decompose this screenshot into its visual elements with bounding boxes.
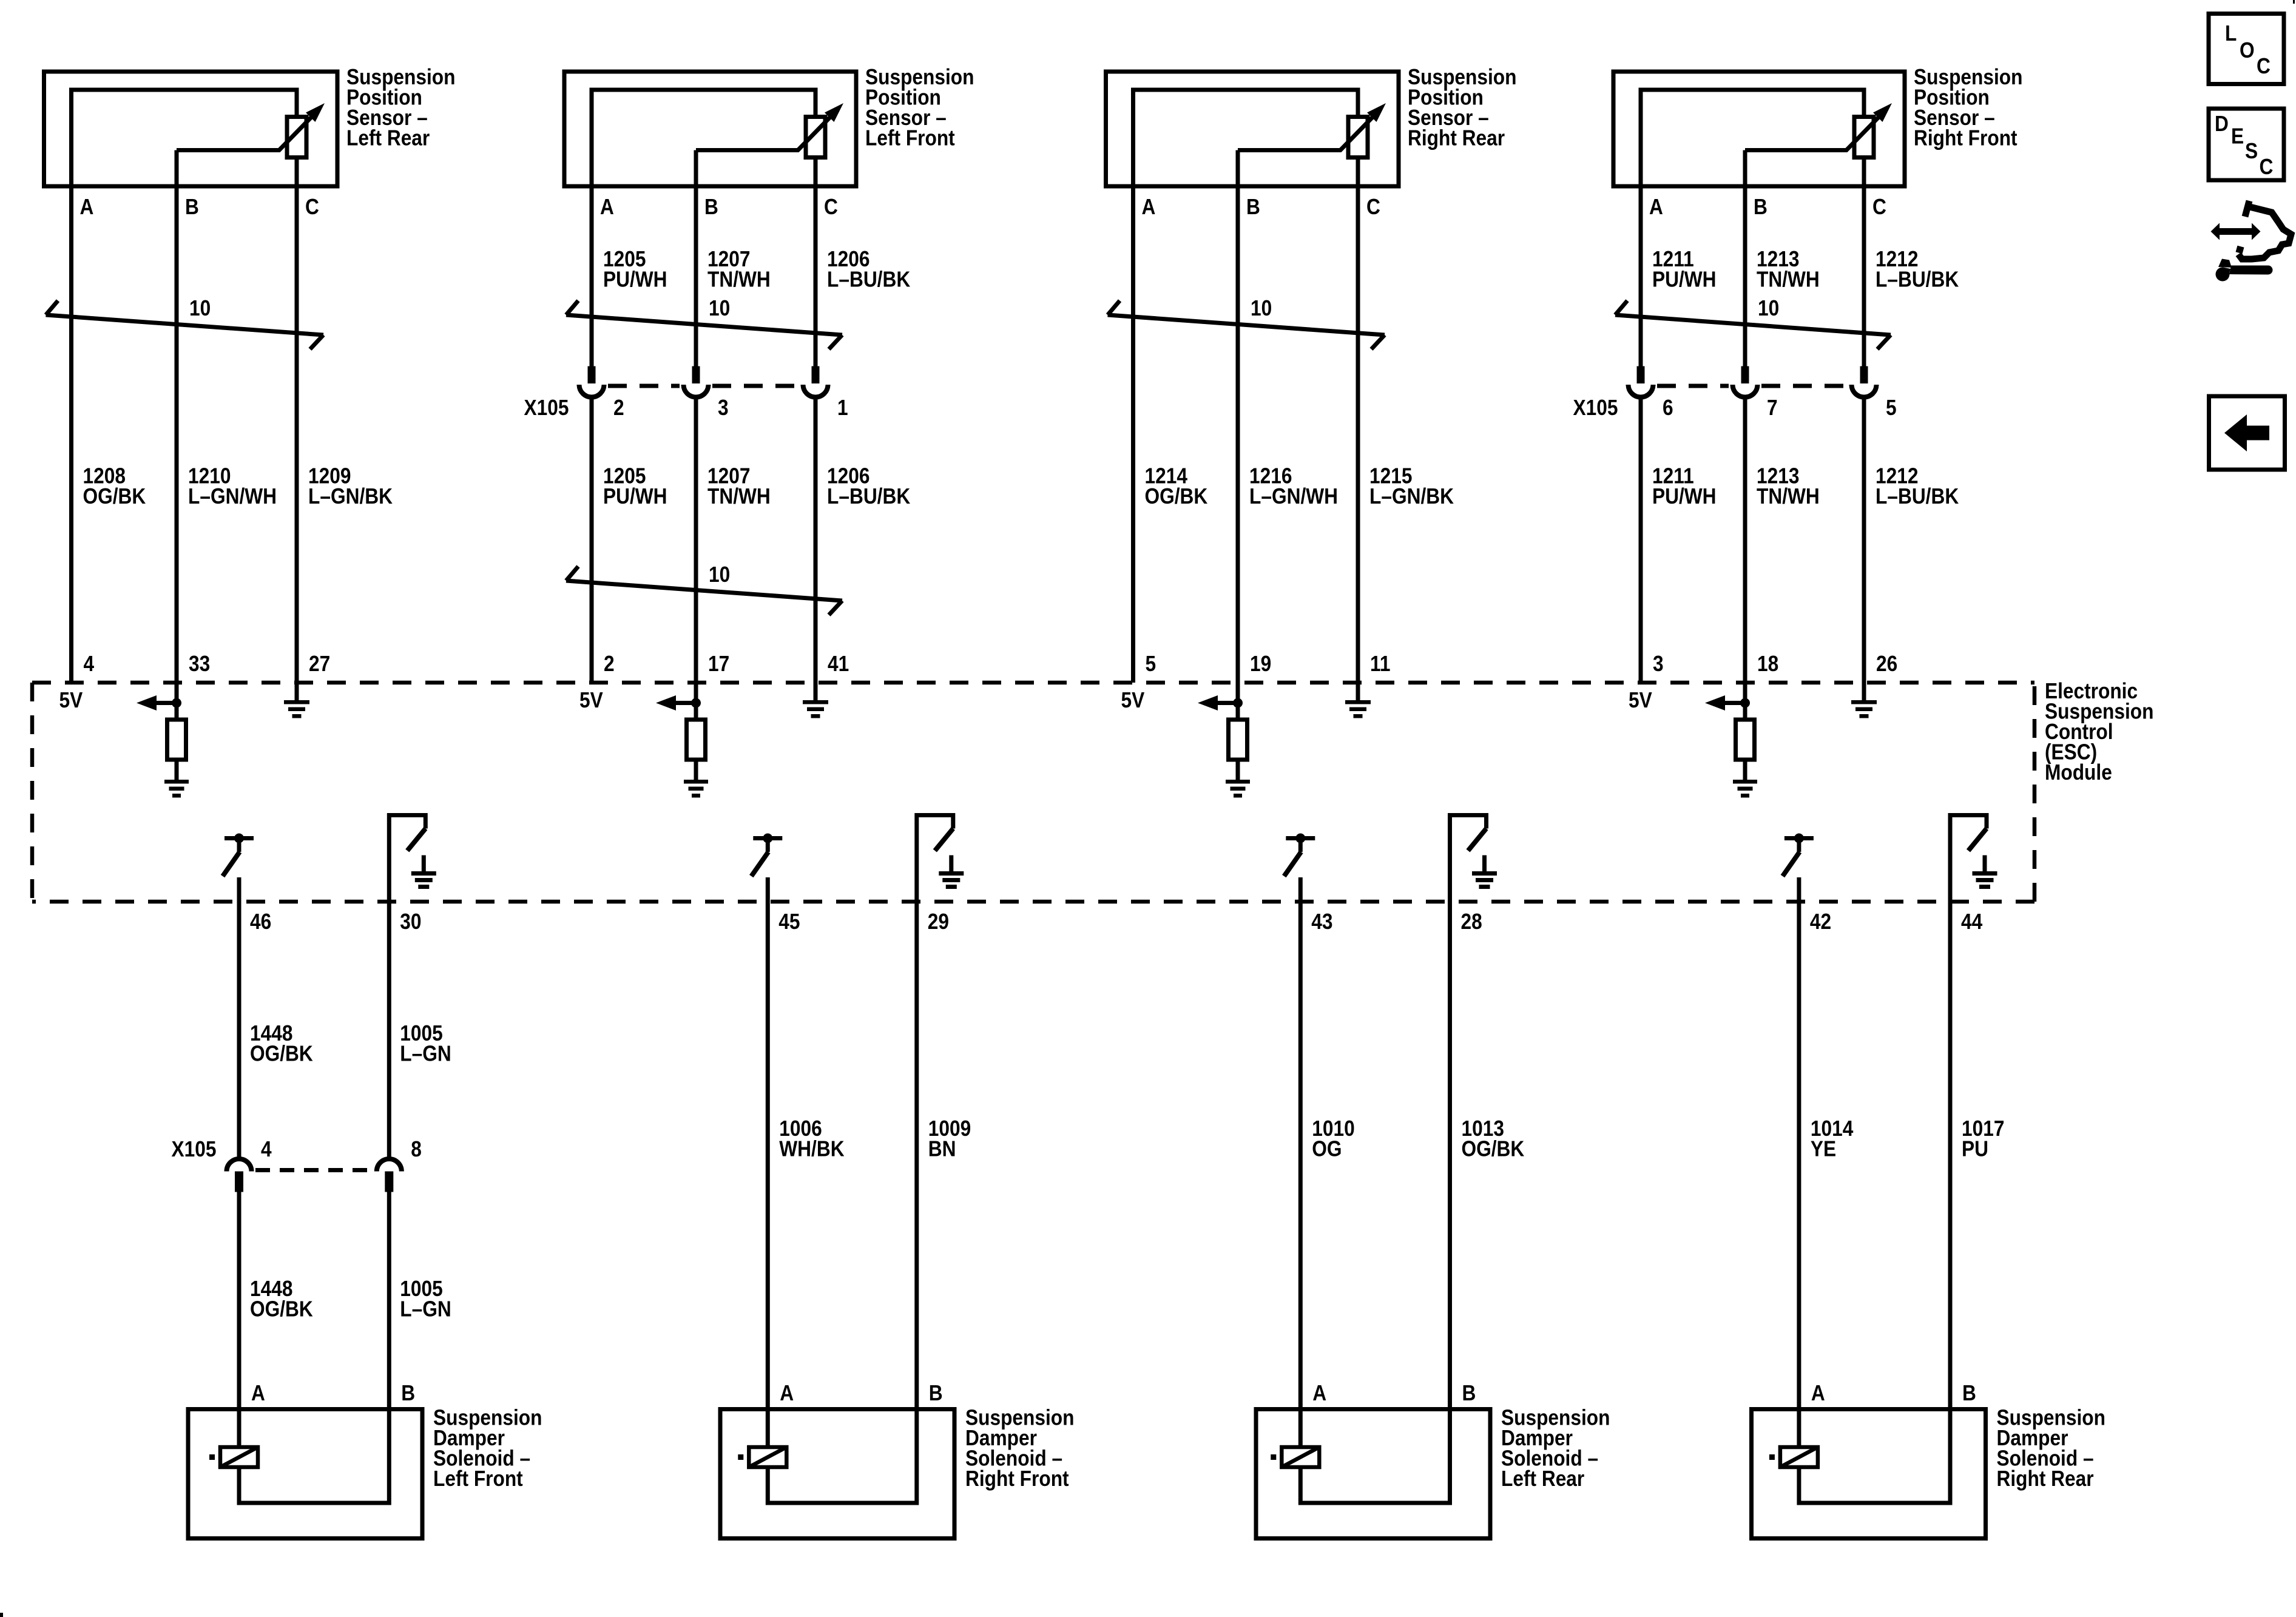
svg-text:B: B bbox=[1962, 1381, 1976, 1405]
svg-text:Right Rear: Right Rear bbox=[1408, 126, 1505, 150]
internal solenoid return wire (solenoid 4) bbox=[1799, 1409, 1950, 1504]
svg-text:30: 30 bbox=[400, 910, 421, 934]
svg-text:45: 45 bbox=[778, 910, 800, 934]
internal solenoid return wire (solenoid 2) bbox=[768, 1409, 917, 1504]
ESC terminal numbers 4/33/27 (sensor 1) bbox=[84, 652, 331, 676]
svg-text:Module: Module bbox=[2045, 760, 2112, 785]
svg-text:B: B bbox=[401, 1381, 415, 1405]
X105 label and cavity numbers 4/8 (solenoid 1) bbox=[172, 1137, 422, 1161]
internal solenoid return wire (solenoid 3) bbox=[1300, 1409, 1450, 1504]
ground symbol under resistor (sensor 1) bbox=[164, 780, 189, 798]
svg-text:YE: YE bbox=[1811, 1137, 1836, 1161]
svg-text:S: S bbox=[2245, 139, 2258, 163]
wire A (sensor 2) upper segment to X105 bbox=[590, 186, 594, 366]
wire labels (sensor 3) bbox=[1145, 464, 1454, 509]
solenoid 1 title text bbox=[433, 1406, 542, 1491]
svg-text:O: O bbox=[2240, 38, 2255, 62]
svg-text:4: 4 bbox=[84, 652, 95, 676]
sensor 1 internal wire: pin A loop to potentiometer top bbox=[72, 90, 297, 186]
svg-text:42: 42 bbox=[1810, 910, 1831, 934]
svg-text:C: C bbox=[2257, 54, 2271, 78]
wire C (sensor 3): pin C to ESC pin 11 bbox=[1356, 158, 1360, 701]
svg-text:OG/BK: OG/BK bbox=[1145, 484, 1208, 508]
potentiometer (sensor 3) bbox=[1348, 117, 1368, 158]
return switch to ground inside ESC (pin 29) bbox=[917, 815, 953, 902]
X105 label and cavity numbers ('6', '7', '5') (sensor 4) bbox=[1573, 396, 1897, 420]
svg-text:L–GN: L–GN bbox=[400, 1297, 451, 1322]
ESC terminal numbers 42/44 (solenoid 4) bbox=[1810, 910, 1982, 934]
svg-text:5V: 5V bbox=[579, 688, 603, 712]
5V supply label (sensor 4 circuit) bbox=[1629, 688, 1652, 712]
sensor 3 internal wire: pin A loop to potentiometer top bbox=[1133, 90, 1359, 186]
sensor 1 internal wire: pin B horizontal bbox=[175, 150, 179, 187]
svg-text:TN/WH: TN/WH bbox=[1757, 484, 1820, 508]
sensor 2 title text bbox=[865, 65, 974, 150]
svg-text:11: 11 bbox=[1370, 652, 1390, 676]
harness interrupt "10" (sensor 4) bbox=[1615, 296, 1891, 349]
wire C (sensor 4) lower segment: X105 to ESC pin 26 bbox=[1862, 399, 1866, 700]
harness interrupt "10" (sensor 2) bbox=[566, 296, 842, 349]
svg-text:C: C bbox=[1872, 195, 1886, 219]
ground symbol under resistor (sensor 4) bbox=[1733, 780, 1757, 798]
potentiometer wiper arrow (sensor 1) bbox=[177, 103, 325, 150]
pull-up resistor inside ESC (sensor 2) bbox=[687, 720, 706, 760]
svg-text:TN/WH: TN/WH bbox=[1757, 268, 1820, 292]
solenoid coil element (solenoid 2) bbox=[738, 1409, 786, 1468]
wire labels (solenoid 3) bbox=[1312, 1116, 1524, 1161]
solenoid coil element (solenoid 4) bbox=[1769, 1409, 1818, 1468]
internal ground symbol (pin 28 switch) bbox=[1472, 856, 1497, 890]
svg-text:8: 8 bbox=[411, 1137, 422, 1161]
ESC terminal numbers 5/19/11 (sensor 3) bbox=[1146, 652, 1391, 676]
svg-text:B: B bbox=[1754, 195, 1768, 219]
svg-text:5V: 5V bbox=[59, 688, 83, 712]
svg-text:A: A bbox=[1312, 1381, 1326, 1405]
sensor 1 title text bbox=[346, 65, 455, 150]
svg-text:TN/WH: TN/WH bbox=[707, 484, 771, 508]
solenoid box: Suspension Damper Solenoid Left Rear bbox=[1256, 1409, 1490, 1539]
ESC terminal numbers 46/30 (solenoid 1) bbox=[250, 910, 422, 934]
svg-text:3: 3 bbox=[1653, 652, 1664, 676]
solenoid 4 title text bbox=[1997, 1406, 2105, 1491]
svg-text:L–GN: L–GN bbox=[400, 1042, 451, 1066]
svg-text:Left Front: Left Front bbox=[865, 126, 955, 150]
svg-text:19: 19 bbox=[1250, 652, 1271, 676]
sensor 3 internal wire: pin B horizontal bbox=[1236, 150, 1240, 187]
wire labels (sensor 4) bbox=[1652, 464, 1959, 509]
svg-text:Left Rear: Left Rear bbox=[346, 126, 430, 150]
X105 label and cavity numbers ('2', '3', '1') (sensor 2) bbox=[524, 396, 848, 420]
sensor 4 internal wire: pin A loop to potentiometer top bbox=[1641, 90, 1864, 186]
X105 dashed connector line (solenoid 1) bbox=[255, 1168, 373, 1172]
svg-text:6: 6 bbox=[1663, 396, 1673, 420]
back arrow icon box bbox=[2209, 396, 2285, 470]
sensor 2 internal wire: pin B horizontal bbox=[694, 150, 698, 187]
wire labels (solenoid 4) bbox=[1811, 1116, 2005, 1161]
sensor box: Suspension Position Sensor Right Rear bbox=[1106, 72, 1399, 186]
sensor box: Suspension Position Sensor Left Front bbox=[564, 72, 856, 186]
lower wire labels (solenoid 1) bbox=[250, 1277, 451, 1322]
wire B (sensor 4) lower segment: X105 to ESC pin 18 bbox=[1743, 399, 1747, 720]
upper wire labels (sensor 2) bbox=[603, 247, 911, 292]
pin letters A/B (solenoid 2) bbox=[780, 1381, 942, 1405]
wire 1013: ESC pin 28 to solenoid pin B bbox=[1448, 902, 1452, 1409]
svg-text:Left Front: Left Front bbox=[433, 1467, 523, 1491]
sensor box: Suspension Position Sensor Right Front bbox=[1613, 72, 1905, 186]
driver switch inside ESC (pin 46) bbox=[223, 834, 254, 877]
svg-text:WH/BK: WH/BK bbox=[779, 1137, 845, 1161]
internal ground symbol (pin 44 switch) bbox=[1973, 856, 1997, 890]
svg-text:OG/BK: OG/BK bbox=[83, 484, 146, 508]
svg-text:26: 26 bbox=[1876, 652, 1897, 676]
pin letters A B C (sensor 2) bbox=[600, 195, 838, 219]
svg-text:43: 43 bbox=[1311, 910, 1332, 934]
svg-text:L–GN/BK: L–GN/BK bbox=[1369, 484, 1454, 508]
svg-text:L–BU/BK: L–BU/BK bbox=[1876, 484, 1959, 508]
internal solenoid return wire (solenoid 1) bbox=[239, 1409, 389, 1504]
wire A (sensor 1): pin A to ESC pin 4 bbox=[69, 186, 73, 683]
svg-text:OG/BK: OG/BK bbox=[1462, 1137, 1525, 1161]
upper wire labels (solenoid 1) bbox=[250, 1021, 451, 1066]
wire A (sensor 2) lower segment: X105 to ESC pin 2 bbox=[590, 399, 594, 683]
svg-text:L–BU/BK: L–BU/BK bbox=[1876, 268, 1959, 292]
inline connector X105 (sensor 2): male pins and female sockets bbox=[579, 366, 828, 397]
svg-text:Right Rear: Right Rear bbox=[1997, 1467, 2094, 1491]
svg-text:B: B bbox=[1246, 195, 1260, 219]
svg-text:5: 5 bbox=[1886, 396, 1897, 420]
svg-text:PU/WH: PU/WH bbox=[603, 268, 667, 292]
ESC terminal numbers 3/18/26 (sensor 4) bbox=[1653, 652, 1897, 676]
vehicle adjust icon: wrench bbox=[2216, 259, 2273, 282]
resistor ground wire (sensor 3) bbox=[1236, 760, 1240, 780]
signal arrow into ESC (sensor 1) bbox=[137, 695, 177, 711]
svg-text:10: 10 bbox=[1251, 296, 1272, 320]
svg-text:B: B bbox=[1462, 1381, 1476, 1405]
svg-text:C: C bbox=[2260, 155, 2274, 179]
junction dot (sensor 3) bbox=[1233, 698, 1243, 708]
pin letters A B C (sensor 3) bbox=[1142, 195, 1380, 219]
svg-text:L: L bbox=[2225, 21, 2237, 46]
svg-text:5: 5 bbox=[1146, 652, 1156, 676]
ESC terminal numbers 2/17/41 (sensor 2) bbox=[604, 652, 849, 676]
pin letters A/B (solenoid 1) bbox=[251, 1381, 415, 1405]
wire C (sensor 1): pin C to ESC pin 27 bbox=[295, 158, 299, 701]
wire 1006: ESC pin 45 to solenoid pin A bbox=[766, 877, 770, 1409]
potentiometer (sensor 4) bbox=[1854, 117, 1874, 158]
potentiometer (sensor 2) bbox=[806, 117, 825, 158]
driver switch inside ESC (pin 45) bbox=[751, 834, 782, 877]
svg-text:Right Front: Right Front bbox=[1914, 126, 2017, 150]
svg-text:28: 28 bbox=[1461, 910, 1482, 934]
svg-text:1: 1 bbox=[837, 396, 848, 420]
svg-text:2: 2 bbox=[613, 396, 624, 420]
svg-text:X105: X105 bbox=[1573, 396, 1618, 420]
sensor 3 title text bbox=[1408, 65, 1516, 150]
svg-text:7: 7 bbox=[1767, 396, 1778, 420]
svg-text:D: D bbox=[2215, 112, 2229, 136]
svg-text:Right Front: Right Front bbox=[965, 1467, 1069, 1491]
LOC navigation icon box bbox=[2209, 14, 2284, 84]
svg-text:46: 46 bbox=[250, 910, 271, 934]
wire 1014: ESC pin 42 to solenoid pin A bbox=[1797, 877, 1801, 1409]
svg-text:X105: X105 bbox=[524, 396, 569, 420]
sensor 4 internal wire: pin B horizontal bbox=[1743, 150, 1747, 187]
ESC module label text bbox=[2045, 679, 2153, 785]
resistor ground wire (sensor 4) bbox=[1743, 760, 1747, 780]
internal ground symbol (pin 30 switch) bbox=[411, 856, 436, 890]
svg-text:OG: OG bbox=[1312, 1137, 1342, 1161]
junction dot (sensor 1) bbox=[172, 698, 181, 708]
svg-text:TN/WH: TN/WH bbox=[707, 268, 771, 292]
svg-text:C: C bbox=[1366, 195, 1380, 219]
wire A (sensor 4) lower segment: X105 to ESC pin 3 bbox=[1639, 399, 1643, 683]
harness interrupt "10" (sensor 3) bbox=[1108, 296, 1385, 349]
pull-up resistor inside ESC (sensor 4) bbox=[1736, 720, 1755, 760]
svg-text:18: 18 bbox=[1757, 652, 1778, 676]
ground symbol on ESC pin 27 (sensor 1) bbox=[284, 700, 309, 718]
wire A (sensor 3): pin A to ESC pin 5 bbox=[1131, 186, 1135, 683]
vehicle adjust icon: double arrow bbox=[2211, 223, 2261, 240]
wire labels (solenoid 2) bbox=[779, 1116, 971, 1161]
svg-text:L–GN/WH: L–GN/WH bbox=[1249, 484, 1338, 508]
wire 1017: ESC pin 44 to solenoid pin B bbox=[1948, 902, 1953, 1409]
potentiometer wiper arrow (sensor 2) bbox=[696, 103, 843, 150]
svg-text:PU/WH: PU/WH bbox=[1652, 268, 1717, 292]
svg-text:3: 3 bbox=[718, 396, 729, 420]
5V supply label (sensor 2 circuit) bbox=[579, 688, 603, 712]
svg-text:A: A bbox=[780, 1381, 794, 1405]
return switch to ground inside ESC (pin 30) bbox=[389, 815, 425, 902]
wire B (sensor 1): pin B to ESC pin 33 bbox=[175, 186, 179, 720]
ground symbol on ESC pin 26 (sensor 4) bbox=[1851, 700, 1877, 718]
resistor ground wire (sensor 1) bbox=[175, 760, 179, 780]
svg-text:L–GN/BK: L–GN/BK bbox=[308, 484, 393, 508]
svg-text:29: 29 bbox=[928, 910, 949, 934]
DESC navigation icon box bbox=[2209, 109, 2284, 180]
X105 dashed connector line (sensor 4) bbox=[1657, 384, 1848, 388]
pin letters A B C (sensor 1) bbox=[80, 195, 319, 219]
ESC terminal numbers 43/28 (solenoid 3) bbox=[1311, 910, 1482, 934]
svg-text:4: 4 bbox=[261, 1137, 272, 1161]
svg-text:C: C bbox=[305, 195, 319, 219]
ground symbol under resistor (sensor 2) bbox=[684, 780, 708, 798]
resistor ground wire (sensor 2) bbox=[694, 760, 698, 780]
svg-text:10: 10 bbox=[709, 296, 730, 320]
svg-text:A: A bbox=[1649, 195, 1663, 219]
svg-text:Left Rear: Left Rear bbox=[1501, 1467, 1584, 1491]
pull-up resistor inside ESC (sensor 3) bbox=[1229, 720, 1248, 760]
potentiometer (sensor 1) bbox=[287, 117, 306, 158]
pin letters A/B (solenoid 4) bbox=[1811, 1381, 1976, 1405]
svg-text:BN: BN bbox=[928, 1137, 956, 1161]
harness interrupt "10" (sensor 1) bbox=[46, 296, 324, 349]
ground symbol on ESC pin 11 (sensor 3) bbox=[1345, 700, 1371, 718]
svg-text:10: 10 bbox=[709, 562, 730, 587]
vehicle adjust icon: vehicle outline bbox=[2237, 201, 2291, 259]
solenoid coil element (solenoid 1) bbox=[209, 1409, 258, 1468]
svg-text:L–BU/BK: L–BU/BK bbox=[827, 268, 911, 292]
svg-text:B: B bbox=[929, 1381, 943, 1405]
svg-text:44: 44 bbox=[1961, 910, 1982, 934]
solenoid box: Suspension Damper Solenoid Left Front bbox=[188, 1409, 422, 1539]
wire 1010: ESC pin 43 to solenoid pin A bbox=[1298, 877, 1303, 1409]
junction dot (sensor 4) bbox=[1740, 698, 1750, 708]
wire A (sensor 4) upper segment to X105 bbox=[1639, 186, 1643, 366]
return switch to ground inside ESC (pin 44) bbox=[1950, 815, 1987, 902]
svg-text:5V: 5V bbox=[1121, 688, 1145, 712]
ESC terminal numbers 45/29 (solenoid 2) bbox=[778, 910, 949, 934]
wire labels (sensor 2) bbox=[603, 464, 911, 509]
signal arrow into ESC (sensor 2) bbox=[656, 695, 696, 711]
driver switch inside ESC (pin 42) bbox=[1783, 834, 1814, 877]
svg-text:B: B bbox=[704, 195, 718, 219]
svg-text:C: C bbox=[824, 195, 838, 219]
sensor 4 title text bbox=[1914, 65, 2022, 150]
svg-text:27: 27 bbox=[309, 652, 330, 676]
wire labels (sensor 1) bbox=[83, 464, 393, 509]
solenoid box: Suspension Damper Solenoid Right Front bbox=[720, 1409, 954, 1539]
signal arrow into ESC (sensor 3) bbox=[1198, 695, 1238, 711]
svg-text:A: A bbox=[80, 195, 94, 219]
svg-text:A: A bbox=[600, 195, 614, 219]
solenoid 2 title text bbox=[965, 1406, 1074, 1491]
svg-text:OG/BK: OG/BK bbox=[250, 1042, 313, 1066]
svg-text:PU: PU bbox=[1962, 1137, 1988, 1161]
svg-text:X105: X105 bbox=[172, 1137, 217, 1161]
inline connector X105 (solenoid 1): sockets and male pins bbox=[226, 1159, 401, 1192]
Electronic Suspension Control (ESC) Module dashed boundary bbox=[32, 683, 2034, 902]
wire C (sensor 2) lower segment: X105 to ESC pin 41 bbox=[814, 399, 818, 700]
svg-text:OG/BK: OG/BK bbox=[250, 1297, 313, 1322]
return switch to ground inside ESC (pin 28) bbox=[1450, 815, 1487, 902]
upper wire labels (sensor 4) bbox=[1652, 247, 1959, 292]
svg-text:33: 33 bbox=[189, 652, 210, 676]
svg-text:PU/WH: PU/WH bbox=[603, 484, 667, 508]
potentiometer wiper arrow (sensor 4) bbox=[1745, 103, 1892, 150]
wire B (sensor 2) lower segment: X105 to ESC pin 17 bbox=[694, 399, 698, 720]
signal arrow into ESC (sensor 4) bbox=[1705, 695, 1745, 711]
pin letters A B C (sensor 4) bbox=[1649, 195, 1886, 219]
solenoid box: Suspension Damper Solenoid Right Rear bbox=[1752, 1409, 1986, 1539]
wire 1448 lower segment to solenoid pin A bbox=[237, 1191, 241, 1409]
wire B (sensor 4) upper segment to X105 bbox=[1743, 186, 1747, 366]
solenoid coil element (solenoid 3) bbox=[1271, 1409, 1319, 1468]
svg-text:41: 41 bbox=[828, 652, 849, 676]
svg-text:A: A bbox=[251, 1381, 265, 1405]
wire B (sensor 2) upper segment to X105 bbox=[694, 186, 698, 366]
5V supply label (sensor 3 circuit) bbox=[1121, 688, 1145, 712]
wire 1448 upper segment: ESC pin 46 to X105 bbox=[237, 877, 241, 1157]
5V supply label (sensor 1 circuit) bbox=[59, 688, 83, 712]
solenoid 3 title text bbox=[1501, 1406, 1610, 1491]
svg-text:10: 10 bbox=[1758, 296, 1779, 320]
ground symbol under resistor (sensor 3) bbox=[1226, 780, 1250, 798]
wire 1009: ESC pin 29 to solenoid pin B bbox=[914, 902, 919, 1409]
inline connector X105 (sensor 4): male pins and female sockets bbox=[1629, 366, 1877, 397]
driver switch inside ESC (pin 43) bbox=[1284, 834, 1315, 877]
wire C (sensor 4) upper segment to X105 bbox=[1862, 158, 1866, 366]
potentiometer wiper arrow (sensor 3) bbox=[1238, 103, 1386, 150]
harness interrupt "10" lower (sensor 2) bbox=[566, 562, 842, 615]
wire C (sensor 2) upper segment to X105 bbox=[814, 158, 818, 366]
wire 1005 lower segment to solenoid pin B bbox=[387, 1191, 391, 1409]
sensor box: Suspension Position Sensor Left Rear bbox=[44, 72, 338, 186]
wire 1005 upper segment: ESC pin 30 to X105 bbox=[387, 902, 391, 1157]
junction dot (sensor 2) bbox=[691, 698, 701, 708]
svg-text:5V: 5V bbox=[1629, 688, 1652, 712]
wire B (sensor 3): pin B to ESC pin 19 bbox=[1236, 186, 1240, 720]
svg-text:2: 2 bbox=[604, 652, 615, 676]
X105 dashed connector line (sensor 2) bbox=[608, 384, 799, 388]
sensor 2 internal wire: pin A loop to potentiometer top bbox=[592, 90, 815, 186]
svg-text:L–BU/BK: L–BU/BK bbox=[827, 484, 911, 508]
internal ground symbol (pin 29 switch) bbox=[939, 856, 964, 890]
svg-text:PU/WH: PU/WH bbox=[1652, 484, 1717, 508]
svg-text:E: E bbox=[2231, 124, 2244, 149]
svg-text:B: B bbox=[185, 195, 199, 219]
svg-text:A: A bbox=[1142, 195, 1156, 219]
svg-text:L–GN/WH: L–GN/WH bbox=[188, 484, 277, 508]
svg-text:17: 17 bbox=[708, 652, 729, 676]
svg-text:10: 10 bbox=[189, 296, 211, 320]
ground symbol on ESC pin 41 (sensor 2) bbox=[803, 700, 828, 718]
pull-up resistor inside ESC (sensor 1) bbox=[167, 720, 186, 760]
pin letters A/B (solenoid 3) bbox=[1312, 1381, 1476, 1405]
svg-text:A: A bbox=[1811, 1381, 1825, 1405]
